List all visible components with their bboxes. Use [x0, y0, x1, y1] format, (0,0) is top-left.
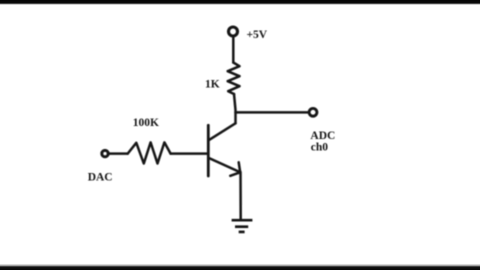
svg-text:ch0: ch0	[311, 142, 329, 154]
svg-text:1K: 1K	[205, 79, 220, 91]
svg-text:+5V: +5V	[247, 29, 268, 41]
svg-text:ADC: ADC	[310, 130, 335, 142]
svg-text:DAC: DAC	[88, 171, 113, 183]
svg-text:100K: 100K	[133, 117, 159, 129]
